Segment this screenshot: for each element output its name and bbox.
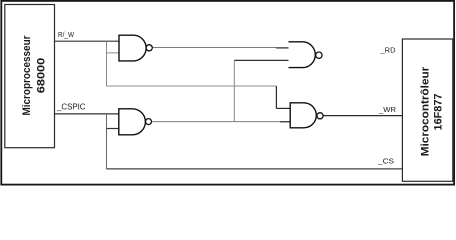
- wire G4 input1 stub: [276, 107, 290, 109]
- nand gate G4: [290, 103, 323, 128]
- microcontroller U2 16F877: [402, 39, 452, 181]
- wire G2 input2 stub: [107, 128, 119, 130]
- wire G2 output to G4 input2: [152, 121, 291, 123]
- nand gate G3 open left: [289, 42, 323, 68]
- svg-text:68000: 68000: [36, 58, 48, 94]
- svg-text:_CS: _CS: [377, 157, 394, 166]
- label _CS: [377, 157, 394, 166]
- nand gate G1: [119, 35, 152, 61]
- svg-text:16F877: 16F877: [433, 94, 445, 131]
- wire vertical drop at x276: [275, 86, 277, 108]
- svg-text:Microcontrôleur: Microcontrôleur: [420, 66, 432, 156]
- wire G1 input2 stub: [107, 52, 120, 54]
- wire _CS run to U2: [107, 168, 403, 170]
- svg-text:R/_W: R/_W: [58, 30, 75, 39]
- label R/_W: [58, 30, 75, 39]
- wire vertical branch at x106.5 upper: [106, 41, 108, 86]
- svg-text:_CSPIC: _CSPIC: [56, 102, 86, 111]
- label _WR: [378, 105, 397, 114]
- label _RD: [380, 45, 397, 54]
- svg-text:Microprocesseur: Microprocesseur: [21, 35, 33, 116]
- wire vertical at x234: [233, 60, 235, 121]
- wire G3 input2 horizontal: [234, 59, 288, 61]
- svg-text:_RD: _RD: [380, 45, 397, 54]
- label _CSPIC: [56, 102, 86, 111]
- wire G1 output to G3 input1: [152, 47, 288, 49]
- microprocessor U1 68000: [5, 5, 55, 148]
- wire G4 output to U2 _WR: [323, 115, 402, 117]
- nand gate G2: [119, 109, 152, 135]
- wire _CSPIC from U1 to gate G2: [55, 113, 119, 115]
- svg-text:_WR: _WR: [378, 105, 397, 114]
- wire horizontal run at y86: [107, 85, 277, 87]
- wire R/_W from U1 to gate G1: [55, 40, 120, 42]
- wire vertical branch at x106.5 lower: [106, 114, 108, 169]
